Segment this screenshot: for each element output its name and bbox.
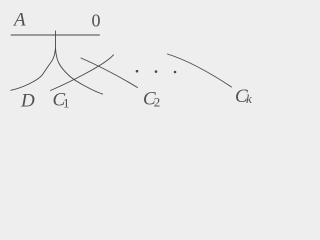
svg-text:0: 0 xyxy=(92,11,101,31)
line down-right to C2 xyxy=(81,58,138,88)
tick mark on interval A xyxy=(55,31,57,48)
curve from tick to left end of D xyxy=(11,48,56,90)
curve from tick to right end of D xyxy=(56,48,103,94)
line down-left to C1 xyxy=(51,55,114,91)
ellipsis dot 2 xyxy=(155,70,158,73)
svg-text:D: D xyxy=(20,91,35,112)
svg-text:2: 2 xyxy=(154,94,161,109)
ellipsis dot 1 xyxy=(136,70,139,73)
line down-right to Ck xyxy=(168,54,232,87)
interval A horizontal line xyxy=(11,34,100,36)
svg-text:k: k xyxy=(246,91,252,106)
svg-text:A: A xyxy=(12,10,26,31)
svg-text:1: 1 xyxy=(63,95,70,110)
ellipsis dot 3 xyxy=(174,71,177,74)
